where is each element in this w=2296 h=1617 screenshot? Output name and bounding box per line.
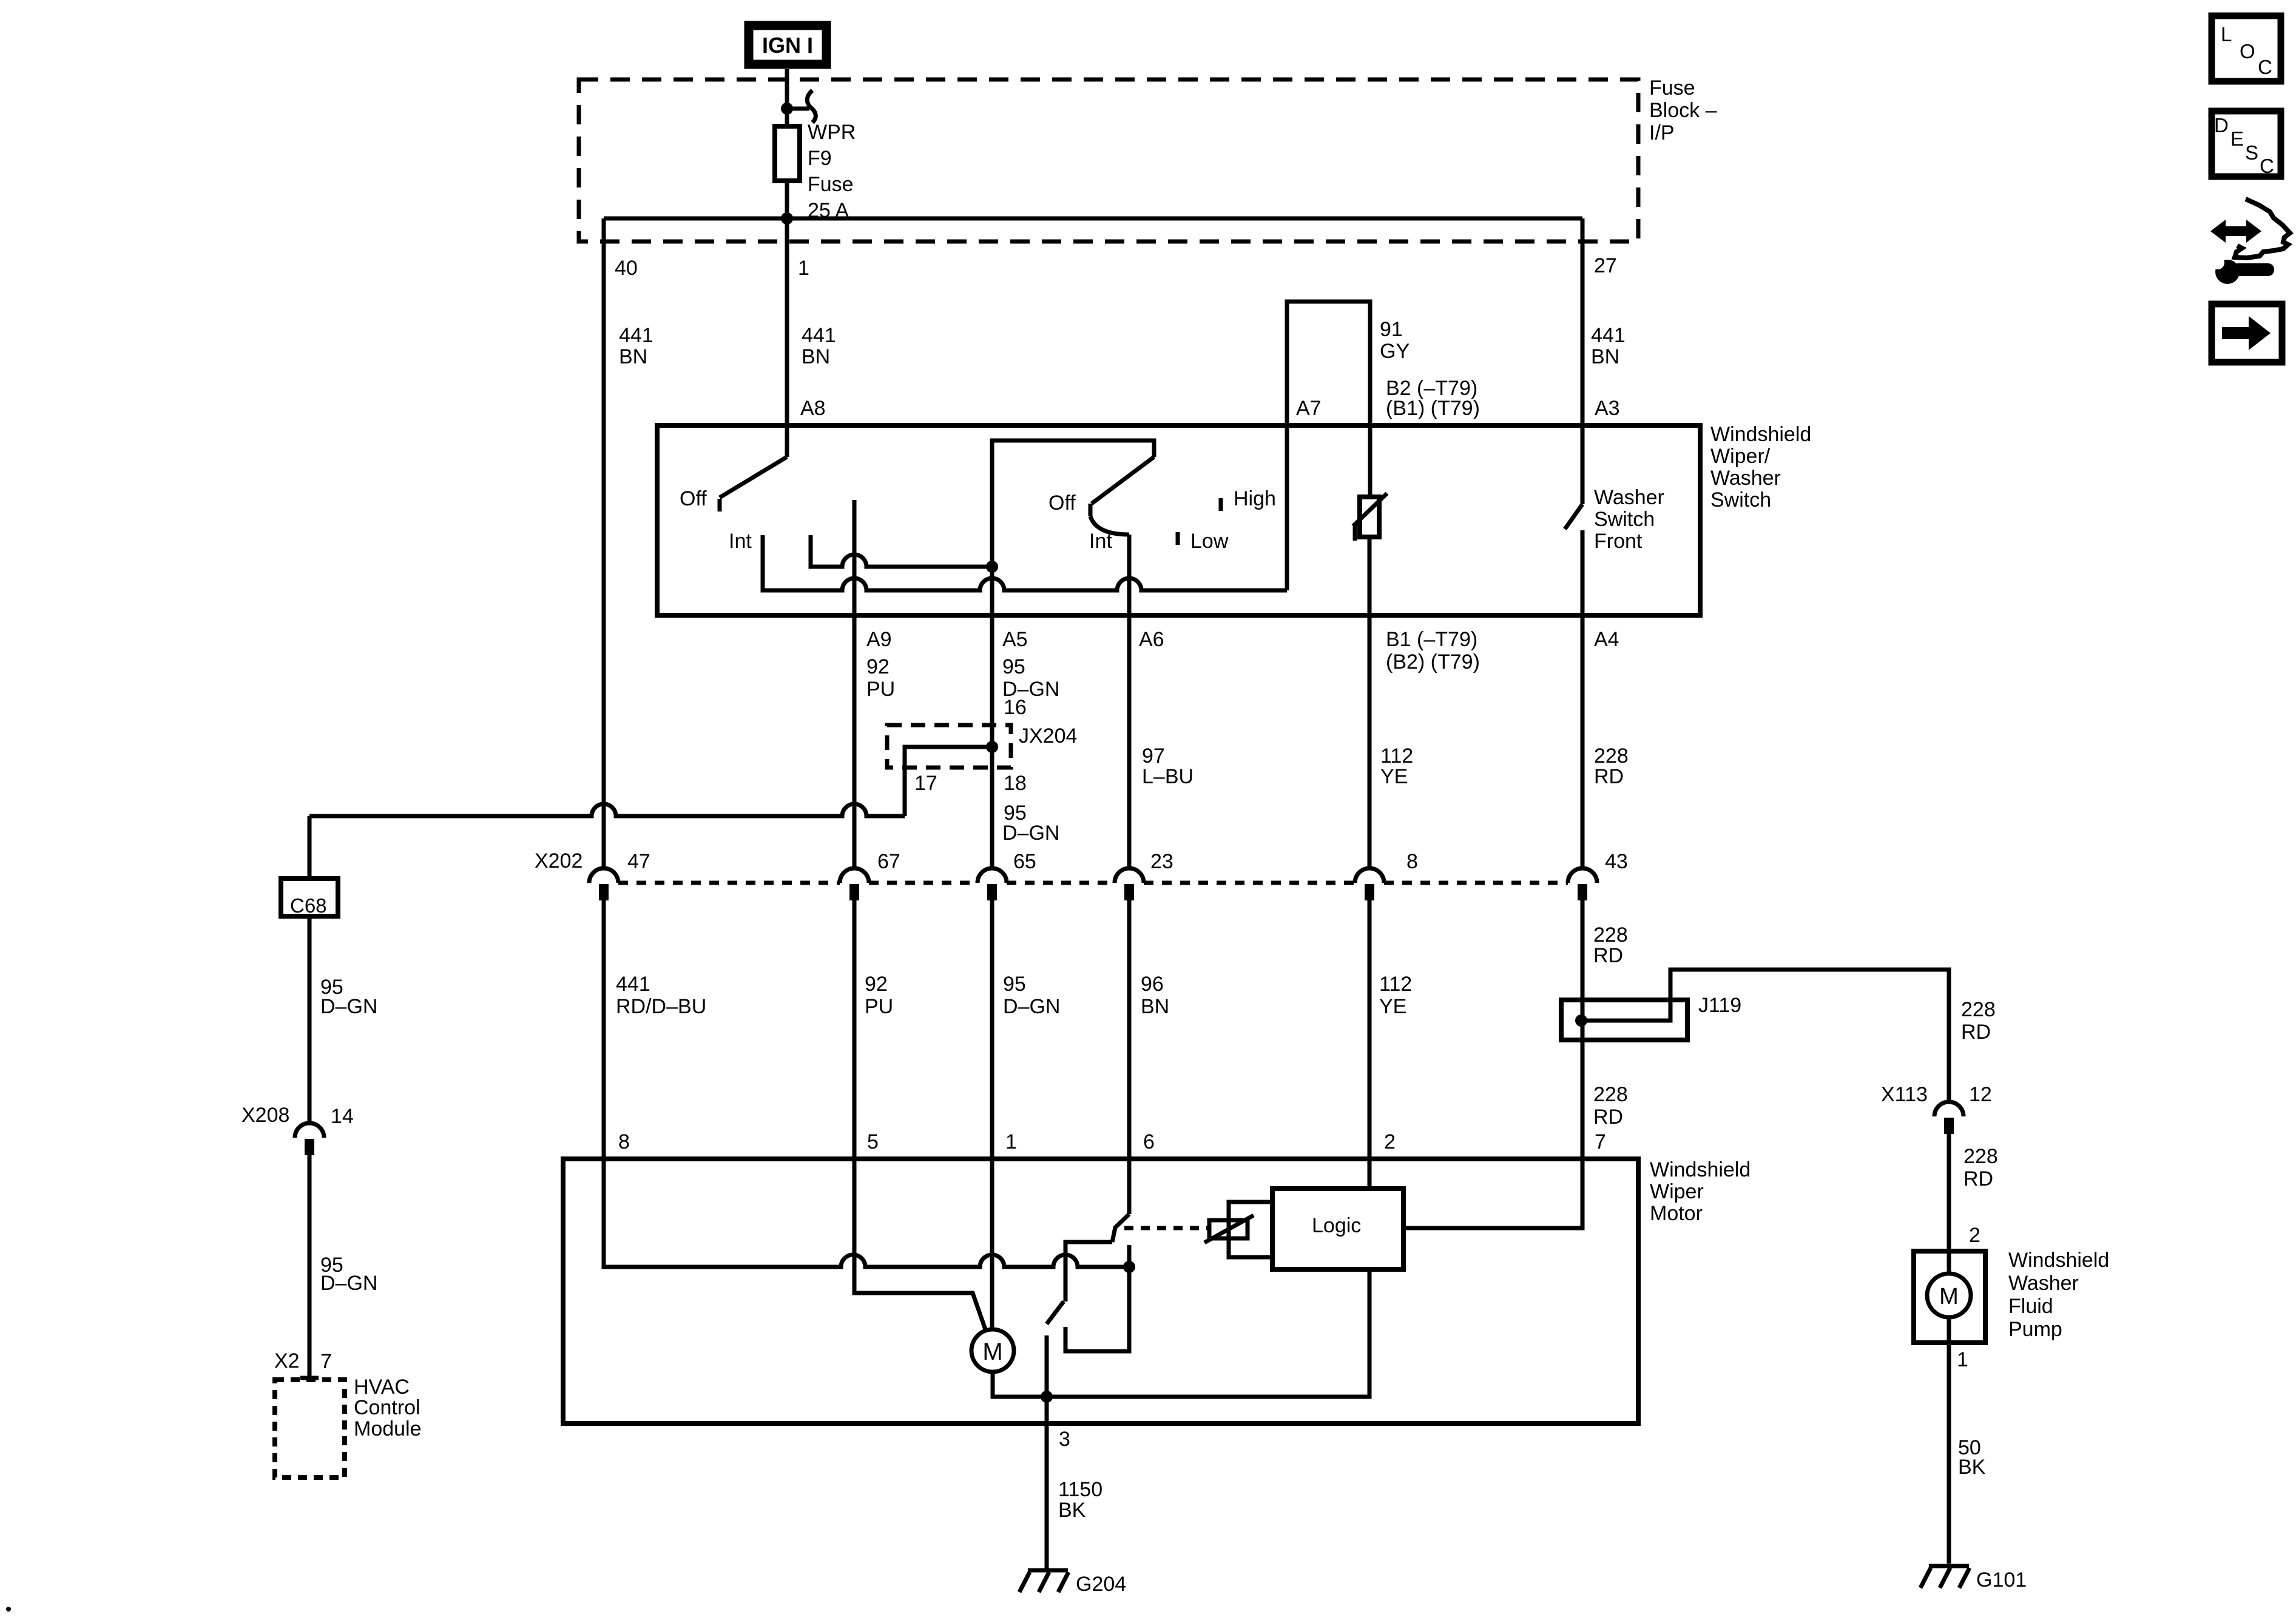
washer switch front blade — [1565, 504, 1582, 529]
connector C68 — [281, 879, 338, 917]
svg-text:Pump: Pump — [2008, 1318, 2062, 1341]
junction block JX204 dashed box — [887, 725, 1011, 768]
svg-text:Wiper: Wiper — [1650, 1180, 1704, 1203]
svg-text:47: 47 — [627, 850, 650, 873]
park switch blade upper (relay driven) — [1112, 1214, 1129, 1242]
node splice in JX204 — [986, 741, 998, 753]
node splice at fuse feed — [781, 103, 793, 115]
svg-text:6: 6 — [1143, 1130, 1155, 1153]
wire 92 PU to motor pin 5 — [853, 900, 857, 1159]
svg-text:12: 12 — [1969, 1083, 1992, 1106]
svg-text:G204: G204 — [1076, 1573, 1126, 1596]
park switch link wire — [1065, 1242, 1112, 1301]
ground G101 — [1920, 1566, 2027, 1592]
svg-text:228: 228 — [1963, 1145, 1998, 1168]
connector row X202 dashed line — [618, 881, 1568, 885]
label Washer Switch Front — [1594, 486, 1664, 553]
motor M armature — [971, 1329, 1014, 1372]
svg-text:Windshield: Windshield — [1710, 423, 1811, 446]
svg-text:A9: A9 — [866, 628, 892, 651]
svg-text:228: 228 — [1593, 1083, 1628, 1106]
svg-text:D: D — [2214, 114, 2229, 137]
icon adjust outline — [2235, 199, 2290, 258]
fuse block I/P dashed outline — [579, 79, 1638, 241]
svg-text:441: 441 — [1591, 324, 1626, 347]
node pin 3 junction — [1041, 1391, 1053, 1403]
svg-text:BK: BK — [1958, 1456, 1986, 1479]
svg-text:D–GN: D–GN — [320, 1272, 377, 1295]
svg-text:1: 1 — [1005, 1130, 1017, 1153]
svg-text:Fluid: Fluid — [2008, 1295, 2053, 1318]
wire A6 from Int (right switch) — [1127, 535, 1132, 868]
svg-text:F9: F9 — [808, 147, 832, 170]
svg-text:A3: A3 — [1595, 397, 1620, 420]
svg-text:RD: RD — [1593, 1106, 1623, 1129]
connector X208 pin 14 — [241, 1104, 354, 1155]
svg-text:67: 67 — [877, 850, 900, 873]
svg-text:17: 17 — [914, 772, 937, 795]
svg-text:Int: Int — [1089, 530, 1112, 553]
svg-text:Block –: Block – — [1649, 99, 1717, 122]
svg-text:X2: X2 — [274, 1349, 300, 1372]
svg-text:Logic: Logic — [1312, 1214, 1361, 1237]
svg-text:A5: A5 — [1002, 628, 1028, 651]
svg-text:7: 7 — [1595, 1130, 1606, 1153]
svg-text:27: 27 — [1594, 254, 1617, 277]
svg-text:3: 3 — [1059, 1428, 1070, 1451]
svg-text:16: 16 — [1004, 696, 1027, 719]
svg-text:97: 97 — [1142, 744, 1165, 768]
connector X202 pin 8 — [1355, 850, 1418, 900]
wire 91 GY dimmer loop A7-B2 — [1287, 302, 1370, 590]
svg-text:441: 441 — [619, 324, 653, 347]
wire 27 / 441 BN (A3 feed) — [1581, 218, 1585, 504]
wire to C68 with hops — [309, 804, 905, 816]
svg-text:A7: A7 — [1296, 397, 1322, 420]
svg-text:C: C — [2258, 56, 2272, 78]
svg-text:JX204: JX204 — [1019, 724, 1077, 748]
svg-text:A4: A4 — [1594, 628, 1619, 651]
svg-text:RD/D–BU: RD/D–BU — [616, 995, 706, 1018]
svg-text:92: 92 — [866, 655, 890, 678]
rheostat delay resistor — [1353, 493, 1387, 541]
contact 2 (left switch) with return wire — [811, 535, 992, 567]
wiper switch blade (right, Off position) — [1092, 457, 1154, 504]
svg-text:2: 2 — [1969, 1224, 1980, 1247]
windshield wiper motor box — [563, 1159, 1638, 1423]
svg-text:95: 95 — [1002, 655, 1025, 678]
svg-text:IGN I: IGN I — [762, 33, 813, 58]
svg-text:Int: Int — [729, 530, 752, 553]
svg-text:Wiper/: Wiper/ — [1710, 445, 1771, 468]
icon DESC — [2212, 111, 2281, 177]
svg-text:E: E — [2230, 127, 2244, 150]
svg-text:112: 112 — [1380, 744, 1413, 768]
svg-text:YE: YE — [1379, 995, 1406, 1018]
park switch upper contact — [1065, 1245, 1129, 1351]
contact Low (right switch) — [1176, 532, 1180, 545]
svg-text:1: 1 — [798, 257, 809, 280]
wire IGN I feed — [785, 69, 789, 126]
connector X202 pin 43 — [1568, 850, 1628, 900]
wire pin 5 to motor brush — [854, 1159, 986, 1331]
svg-text:YE: YE — [1380, 765, 1408, 788]
svg-text:BN: BN — [802, 345, 830, 368]
svg-text:L–BU: L–BU — [1142, 765, 1194, 788]
wiper switch blade (left, Off position) — [720, 457, 787, 498]
contact Off (right switch) — [1089, 504, 1093, 516]
svg-text:C68: C68 — [290, 894, 327, 917]
svg-text:Motor: Motor — [1650, 1202, 1703, 1225]
svg-text:A8: A8 — [800, 397, 826, 420]
svg-text:Off: Off — [1048, 491, 1076, 515]
svg-text:S: S — [2245, 141, 2258, 164]
svg-text:228: 228 — [1593, 923, 1628, 947]
svg-text:BN: BN — [619, 345, 647, 368]
svg-text:BN: BN — [1591, 345, 1619, 368]
svg-text:M: M — [982, 1338, 1002, 1365]
HVAC control module dashed box — [275, 1380, 345, 1477]
svg-text:X208: X208 — [241, 1104, 289, 1127]
contact High (right switch) — [1219, 498, 1223, 511]
svg-text:RD: RD — [1961, 1021, 1991, 1044]
svg-text:D–GN: D–GN — [1003, 995, 1060, 1018]
svg-text:7: 7 — [320, 1350, 332, 1373]
svg-text:228: 228 — [1961, 998, 1996, 1021]
relay coil bracket to logic — [1229, 1202, 1272, 1257]
icon LOC — [2212, 16, 2281, 81]
label Fuse Block I/P — [1649, 76, 1717, 144]
wire pin 1 to motor — [990, 1159, 994, 1329]
svg-text:Off: Off — [680, 487, 707, 510]
svg-text:D–GN: D–GN — [320, 995, 377, 1018]
wire 441 RD/D-BU to motor pin 8 — [602, 900, 606, 1159]
connector X202 pin 65 — [977, 850, 1036, 900]
svg-text:C: C — [2260, 155, 2274, 177]
svg-text:Low: Low — [1190, 530, 1229, 553]
wire 95 D-GN to motor pin 1 — [990, 900, 994, 1159]
svg-text:Windshield: Windshield — [1650, 1158, 1751, 1181]
svg-text:91: 91 — [1380, 318, 1403, 341]
svg-text:Fuse: Fuse — [1649, 76, 1695, 100]
svg-text:96: 96 — [1141, 973, 1164, 996]
svg-text:65: 65 — [1013, 850, 1036, 873]
svg-text:(B1) (T79): (B1) (T79) — [1386, 397, 1480, 420]
park switch common to pin 3 — [1045, 1335, 1049, 1568]
svg-text:Control: Control — [354, 1396, 420, 1419]
svg-text:Front: Front — [1594, 530, 1643, 553]
svg-text:PU: PU — [865, 995, 893, 1018]
bus wire inside fuse block — [604, 217, 1582, 221]
relay linkage dashed — [1124, 1226, 1207, 1230]
motor return wire to logic — [993, 1272, 1369, 1397]
svg-text:441: 441 — [802, 324, 836, 347]
svg-text:40: 40 — [615, 257, 638, 280]
svg-text:J119: J119 — [1698, 994, 1741, 1017]
icon adjust wrench — [2211, 256, 2274, 284]
washer switch contact / wire A4 — [1581, 530, 1585, 868]
wire 228 RD into splice J119 — [1581, 900, 1585, 1159]
ground G204 — [1019, 1570, 1126, 1596]
wire 112 YE to motor pin 2 — [1368, 900, 1372, 1189]
svg-text:Switch: Switch — [1710, 488, 1771, 511]
svg-text:GY: GY — [1380, 340, 1410, 363]
connector X113 pin 12 — [1881, 1083, 1992, 1134]
svg-text:D–GN: D–GN — [1002, 822, 1059, 845]
contact Off (left switch) — [718, 499, 722, 511]
svg-text:BN: BN — [1141, 995, 1169, 1018]
label Windshield Washer Fluid Pump — [2008, 1249, 2109, 1341]
svg-text:441: 441 — [616, 973, 650, 996]
svg-text:X202: X202 — [535, 849, 582, 873]
svg-text:Washer: Washer — [2008, 1272, 2079, 1295]
splice pack J119 — [1561, 970, 1949, 1102]
svg-text:BK: BK — [1058, 1499, 1086, 1522]
svg-text:2: 2 — [1384, 1130, 1396, 1153]
icon adjust double arrow — [2210, 220, 2261, 243]
svg-text:L: L — [2221, 23, 2232, 46]
svg-text:PU: PU — [866, 678, 895, 701]
svg-text:95: 95 — [1003, 973, 1026, 996]
svg-text:1: 1 — [1957, 1348, 1968, 1371]
svg-text:Windshield: Windshield — [2008, 1249, 2109, 1272]
wire A9 92 PU — [853, 500, 857, 868]
wire 95 D-GN below C68 — [308, 916, 312, 1123]
node junction on A5 wire — [986, 561, 998, 573]
svg-text:8: 8 — [618, 1130, 630, 1153]
wire B1 from rheostat down — [1368, 537, 1372, 868]
svg-text:Module: Module — [354, 1417, 422, 1440]
svg-text:HVAC: HVAC — [354, 1376, 410, 1399]
svg-text:X113: X113 — [1881, 1083, 1928, 1106]
svg-text:Fuse: Fuse — [808, 173, 854, 196]
connector X202 pin 23 — [1115, 850, 1173, 900]
svg-text:B1 (–T79): B1 (–T79) — [1386, 628, 1477, 651]
connector X202 pin 67 — [840, 850, 900, 900]
svg-text:O: O — [2240, 40, 2255, 62]
svg-text:Washer: Washer — [1594, 486, 1664, 509]
svg-text:43: 43 — [1605, 850, 1628, 873]
label Windshield Wiper Motor — [1650, 1158, 1751, 1225]
svg-text:G101: G101 — [1976, 1568, 2027, 1592]
wire 40 / 441 BN (left feed) — [602, 218, 606, 868]
connector X202 pin 47 — [589, 850, 650, 900]
svg-text:14: 14 — [331, 1105, 354, 1128]
svg-text:23: 23 — [1150, 850, 1173, 873]
curve Off contact to Int wire (right switch) — [1090, 516, 1129, 535]
svg-text:18: 18 — [1004, 772, 1027, 795]
stray mark bottom left — [6, 1607, 11, 1612]
svg-text:High: High — [1234, 487, 1276, 510]
logic module box — [1272, 1189, 1403, 1269]
fuse WPR F9 25 A — [775, 121, 856, 222]
node park contact junction — [1123, 1261, 1135, 1273]
svg-text:(B2) (T79): (B2) (T79) — [1386, 650, 1480, 673]
wire pin 7 to logic — [1403, 1159, 1582, 1228]
power source IGN I — [749, 25, 826, 64]
wire 96 BN to motor pin 6 — [1127, 900, 1132, 1214]
relay coil — [1204, 1215, 1254, 1243]
svg-text:WPR: WPR — [808, 121, 856, 144]
windshield washer fluid pump — [1914, 1251, 1985, 1564]
svg-text:5: 5 — [867, 1130, 879, 1153]
svg-text:M: M — [1939, 1284, 1959, 1309]
svg-text:228: 228 — [1594, 744, 1629, 768]
wire pin 8 feed inside motor — [604, 1159, 1129, 1267]
label Windshield Wiper/Washer Switch — [1710, 423, 1811, 511]
wire 228 RD to pump pin 2 — [1947, 1134, 1951, 1274]
bus tap hook — [787, 90, 815, 123]
park switch blade lower — [1047, 1301, 1064, 1324]
svg-text:RD: RD — [1593, 944, 1623, 967]
windshield wiper/washer switch box — [657, 425, 1700, 615]
node fuse output junction — [781, 212, 793, 224]
wire A5 riser to right switch pivot — [992, 441, 1154, 868]
wire 1 / 441 BN (A8 feed) — [785, 218, 789, 457]
svg-text:RD: RD — [1594, 765, 1624, 788]
svg-text:RD: RD — [1963, 1167, 1993, 1190]
wire 95 D-GN to HVAC — [300, 1155, 319, 1378]
svg-text:112: 112 — [1379, 973, 1412, 996]
svg-text:1150: 1150 — [1058, 1478, 1102, 1501]
svg-text:92: 92 — [865, 973, 888, 996]
icon next arrow — [2212, 304, 2282, 362]
svg-text:A6: A6 — [1139, 628, 1164, 651]
svg-text:8: 8 — [1406, 850, 1418, 873]
svg-text:Washer: Washer — [1710, 467, 1781, 490]
svg-text:Switch: Switch — [1594, 508, 1655, 531]
svg-text:I/P: I/P — [1649, 121, 1675, 144]
wire jumper 17 from JX204 — [905, 747, 992, 816]
